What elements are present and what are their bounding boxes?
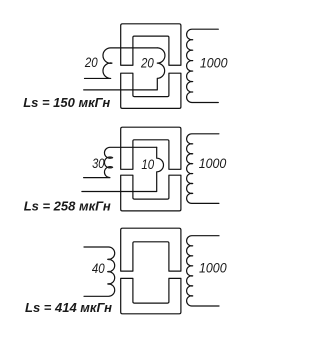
svg-text:Ls = 414 мкГн: Ls = 414 мкГн: [25, 300, 112, 315]
core top half: [121, 127, 181, 169]
svg-text:Ls = 150 мкГн: Ls = 150 мкГн: [23, 95, 110, 110]
svg-text:30: 30: [92, 156, 105, 171]
winding W1b 20-turn inner coil (in core window): [84, 48, 165, 90]
svg-text:10: 10: [141, 157, 154, 172]
svg-text:Ls = 258 мкГн: Ls = 258 мкГн: [24, 199, 111, 214]
svg-text:1000: 1000: [200, 55, 228, 70]
winding W1a 20-turn left coil with top wire into window: [85, 48, 158, 79]
coil cusp pinch dot: [109, 62, 112, 64]
core bottom half: [121, 278, 181, 313]
winding W3b 10-turn inner coil (in core window): [82, 147, 164, 191]
core top half (transformer core upper C-section): [121, 24, 181, 65]
core bottom half (transformer core lower C-section): [121, 73, 181, 108]
coil cusp pinch dots: [108, 157, 113, 159]
coil cusp pinch dots: [108, 259, 111, 261]
core bottom half: [121, 175, 181, 211]
svg-text:1000: 1000: [199, 261, 227, 276]
winding W3a 30-turn left coil with top wire into window: [84, 147, 157, 177]
svg-text:1000: 1000: [199, 156, 227, 171]
svg-text:20: 20: [84, 55, 98, 70]
winding W4 1000-turn secondary coil: [187, 134, 219, 204]
core top half: [121, 228, 181, 271]
winding W5 40-turn primary coil: [84, 247, 115, 296]
svg-text:40: 40: [92, 261, 105, 276]
svg-text:20: 20: [140, 55, 154, 70]
winding W2 1000-turn secondary coil: [187, 29, 219, 102]
winding W6 1000-turn secondary coil: [187, 236, 219, 306]
